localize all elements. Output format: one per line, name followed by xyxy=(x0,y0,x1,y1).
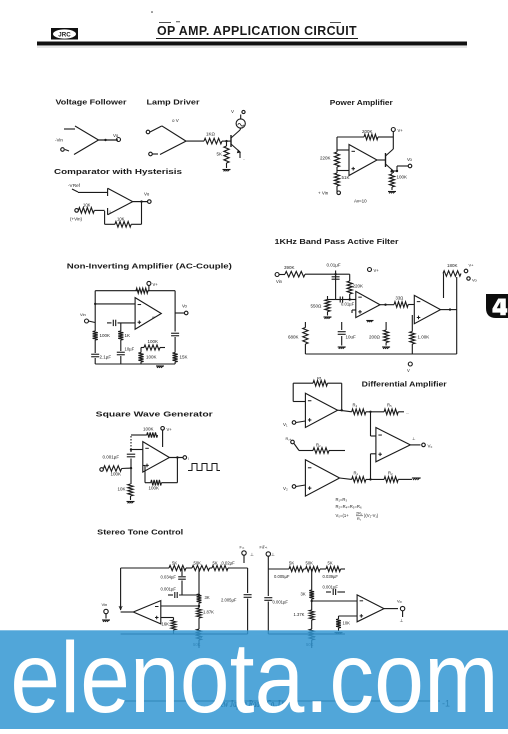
svg-text:10K: 10K xyxy=(83,203,91,208)
svg-text:1KΩ: 1KΩ xyxy=(206,132,216,137)
svg-text:V: V xyxy=(231,109,234,114)
svg-text:Stereo Tone Control: Stereo Tone Control xyxy=(97,530,183,537)
svg-text:390K: 390K xyxy=(284,265,295,270)
svg-text:Fₒₜ: Fₒₜ xyxy=(240,546,245,550)
svg-text:⊥: ⊥ xyxy=(412,436,416,441)
svg-text:100K: 100K xyxy=(143,427,154,432)
svg-text:1KHz Band Pass Active Filter: 1KHz Band Pass Active Filter xyxy=(275,239,399,246)
svg-text:1.87K: 1.87K xyxy=(203,610,214,615)
svg-text:5K: 5K xyxy=(172,561,177,566)
svg-text:+ Vin: + Vin xyxy=(318,191,329,196)
svg-text:0.001µF: 0.001µF xyxy=(323,585,339,590)
svg-text:(+Vin): (+Vin) xyxy=(70,217,83,222)
svg-text:R₂: R₂ xyxy=(316,443,321,448)
svg-text:0.039µF: 0.039µF xyxy=(323,574,339,579)
svg-text:V: V xyxy=(407,368,410,373)
svg-text:2R₂: 2R₂ xyxy=(356,512,363,516)
svg-text:Vo: Vo xyxy=(472,278,477,283)
svg-text:Non-Inverting Amplifier (AC-Co: Non-Inverting Amplifier (AC-Couple) xyxy=(67,264,232,271)
svg-text:10µF: 10µF xyxy=(125,347,135,352)
svg-text:680K: 680K xyxy=(288,335,299,340)
svg-text:Power Amplifier: Power Amplifier xyxy=(330,100,393,107)
svg-text:\: \ xyxy=(188,457,189,461)
svg-text:5K: 5K xyxy=(217,152,223,157)
svg-text:0.001µF: 0.001µF xyxy=(273,600,289,605)
svg-text:...: ... xyxy=(406,410,409,415)
svg-text:1.00K: 1.00K xyxy=(418,335,430,340)
svg-text:Vo: Vo xyxy=(407,157,413,162)
svg-text:V+: V+ xyxy=(153,282,159,287)
svg-text:100K: 100K xyxy=(100,333,111,338)
svg-text:)(V₂-V₁): )(V₂-V₁) xyxy=(364,513,379,518)
svg-text:200K: 200K xyxy=(362,129,373,134)
svg-text:R₂: R₂ xyxy=(388,471,393,476)
svg-text:Av≈10: Av≈10 xyxy=(354,199,367,204)
svg-text:V+: V+ xyxy=(374,268,380,273)
svg-text:10uF: 10uF xyxy=(346,335,357,340)
svg-text:Vin: Vin xyxy=(102,602,108,607)
svg-text:51K: 51K xyxy=(342,175,350,180)
svg-text:33Ω: 33Ω xyxy=(396,296,404,301)
svg-text:180K: 180K xyxy=(447,263,458,268)
svg-text:0.005µF: 0.005µF xyxy=(274,574,290,579)
svg-text:1K: 1K xyxy=(125,333,131,338)
svg-text:Vo: Vo xyxy=(113,133,119,138)
svg-text:100K: 100K xyxy=(397,175,408,180)
svg-text:100K: 100K xyxy=(111,472,122,477)
svg-text:0.01µF: 0.01µF xyxy=(327,263,341,268)
svg-text:200Ω: 200Ω xyxy=(369,335,381,340)
svg-text:-V Ref: -V Ref xyxy=(68,183,81,188)
svg-text:Differential Amplifier: Differential Amplifier xyxy=(362,382,447,389)
svg-text:V+: V+ xyxy=(398,128,404,133)
svg-text:Vin: Vin xyxy=(276,279,283,284)
svg-text:Vo: Vo xyxy=(144,192,150,197)
svg-text:1.37K: 1.37K xyxy=(294,612,305,617)
svg-text:3K: 3K xyxy=(205,595,210,600)
svg-text:R₃: R₃ xyxy=(353,403,358,408)
svg-text:10K: 10K xyxy=(118,487,126,492)
svg-text:Fₒₜ: Fₒₜ xyxy=(263,545,268,549)
svg-text:OP AMP. APPLICATION CIRCUIT: OP AMP. APPLICATION CIRCUIT xyxy=(157,23,357,38)
svg-text:2.1µF: 2.1µF xyxy=(100,355,112,360)
svg-text:Voltage Follower: Voltage Follower xyxy=(56,100,127,107)
svg-text:V+: V+ xyxy=(469,263,475,268)
svg-text:0.034µF: 0.034µF xyxy=(161,575,177,580)
svg-text:2.005µF: 2.005µF xyxy=(221,598,237,603)
svg-text:elenota.com: elenota.com xyxy=(10,622,498,729)
svg-text:R₂=R₄=R₅=R₆: R₂=R₄=R₅=R₆ xyxy=(336,504,362,509)
svg-text:15K: 15K xyxy=(180,355,188,360)
svg-text:220K: 220K xyxy=(320,156,331,161)
svg-text:Vₒₜ: Vₒₜ xyxy=(397,599,402,604)
svg-text:220K: 220K xyxy=(353,284,364,289)
svg-text:JRC: JRC xyxy=(58,31,71,38)
svg-text:V₀=(1+: V₀=(1+ xyxy=(336,513,350,518)
svg-text:5K: 5K xyxy=(328,561,333,566)
svg-text:50K: 50K xyxy=(306,561,314,566)
svg-text:0.02µF: 0.02µF xyxy=(222,561,236,566)
svg-text:Vin: Vin xyxy=(80,312,86,317)
svg-text:V₀: V₀ xyxy=(428,444,433,449)
svg-text:R₁=R₃: R₁=R₃ xyxy=(336,497,348,502)
svg-text:100K: 100K xyxy=(148,339,159,344)
svg-text:R₁: R₁ xyxy=(357,517,362,521)
svg-text:Lamp Driver: Lamp Driver xyxy=(147,100,200,107)
svg-text:V+: V+ xyxy=(167,427,173,432)
svg-text:V₁: V₁ xyxy=(283,422,288,427)
svg-text:100K: 100K xyxy=(146,355,157,360)
svg-text:⊥: ⊥ xyxy=(271,552,275,557)
svg-text:0.001µF: 0.001µF xyxy=(161,587,177,592)
svg-text:3K: 3K xyxy=(301,592,306,597)
svg-text:⊥: ⊥ xyxy=(250,552,254,557)
svg-text:R₁: R₁ xyxy=(354,471,359,476)
svg-text:100K: 100K xyxy=(149,486,160,491)
svg-text:R₂ₖ: R₂ₖ xyxy=(286,437,292,441)
svg-text:-Vin: -Vin xyxy=(55,138,63,143)
svg-text:Vo: Vo xyxy=(182,304,188,309)
svg-text:10K: 10K xyxy=(117,217,125,222)
svg-text:..: .. xyxy=(243,156,245,161)
svg-text:V₂: V₂ xyxy=(283,486,288,491)
svg-text:o V: o V xyxy=(172,118,179,123)
svg-text:R₅: R₅ xyxy=(387,403,392,408)
svg-text:0.001µF: 0.001µF xyxy=(103,455,120,460)
svg-text:Square Wave Generator: Square Wave Generator xyxy=(96,412,213,419)
svg-text:550Ω: 550Ω xyxy=(311,304,323,309)
svg-text:Comparator with Hysterisis: Comparator with Hysterisis xyxy=(54,169,182,176)
